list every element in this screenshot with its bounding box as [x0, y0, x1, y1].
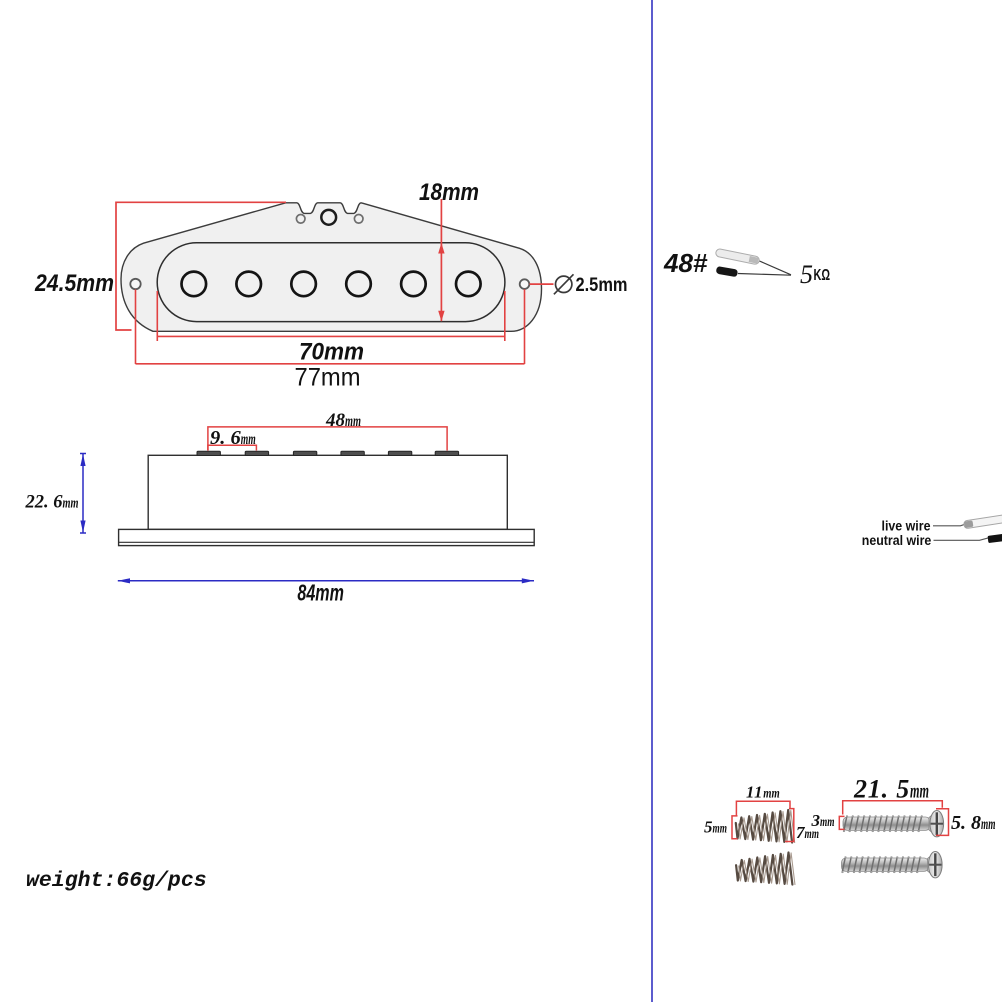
svg-text:84mm: 84mm [297, 580, 344, 606]
svg-text:neutral wire: neutral wire [862, 533, 932, 548]
screw 1 (mounting screw, top) [843, 811, 944, 837]
extension line left hole to 77mm [135, 290, 137, 365]
dimension bracket 7mm (spring big end) [785, 809, 794, 842]
diameter symbol [554, 274, 574, 294]
svg-text:3mm: 3mm [811, 811, 835, 830]
top small hole left [296, 215, 305, 224]
pickup top-view outer cover outline [121, 203, 542, 331]
dimension line 77mm [136, 363, 525, 365]
svg-text:2.5mm: 2.5mm [576, 275, 628, 296]
svg-text:21. 5mm: 21. 5mm [853, 775, 929, 804]
screw 2 (mounting screw, bottom) [842, 852, 943, 878]
pole tab 3 (side view) [293, 451, 316, 455]
pole tab 1 (side view) [197, 451, 220, 455]
svg-text:70mm: 70mm [299, 339, 364, 366]
dimension bracket 24.5mm [116, 202, 286, 330]
dimension bracket 5mm (spring small end) [732, 816, 738, 839]
pole piece 5 [401, 272, 426, 297]
pole piece 1 [182, 272, 207, 297]
svg-text:5mm: 5mm [704, 818, 727, 837]
right mounting hole [520, 279, 530, 289]
pole piece 2 [236, 272, 261, 297]
extension line stadium left to 70mm [156, 291, 158, 341]
svg-text:18mm: 18mm [419, 179, 479, 206]
pole piece 3 [291, 272, 316, 297]
leader line hole diameter [530, 283, 554, 285]
svg-text:77mm: 77mm [295, 364, 361, 392]
dimension bracket 48mm [208, 427, 447, 451]
svg-text:24.5mm: 24.5mm [34, 270, 114, 297]
pickup top-view inner flange (stadium) [157, 243, 505, 322]
dimension arrow 22.6mm [80, 454, 86, 534]
pole piece 4 [346, 272, 371, 297]
dimension bracket 11mm (spring length) [736, 801, 790, 815]
pole piece 6 [456, 272, 481, 297]
side view body [148, 455, 507, 529]
pointer line from white wire [760, 261, 792, 275]
side view base plate [119, 529, 535, 545]
dimension bracket 3mm (screw tip) [839, 816, 844, 829]
svg-text:5. 8mm: 5. 8mm [951, 812, 996, 834]
base plate inner line [119, 541, 535, 543]
leader line neutral wire [934, 537, 991, 540]
dimension line 18mm (vertical) [440, 199, 442, 321]
spring 2 (conical, bottom) [736, 853, 792, 885]
neutral wire (black) [988, 534, 1002, 543]
svg-text:48#: 48# [663, 248, 708, 278]
top center hole [321, 210, 336, 225]
live wire (white) [963, 514, 1002, 529]
pole tab 6 (side view) [435, 451, 458, 455]
vertical section divider line [651, 0, 653, 1002]
svg-text:9. 6mm: 9. 6mm [210, 427, 256, 449]
svg-text:11mm: 11mm [746, 783, 780, 802]
enameled wire white sample [715, 248, 760, 265]
dimension bracket 9.6mm [208, 445, 257, 450]
pole tab 5 (side view) [388, 451, 411, 455]
left mounting hole [130, 279, 140, 289]
pole tab 2 (side view) [245, 451, 268, 455]
extension line right hole to 77mm [524, 289, 526, 364]
top small hole right [354, 215, 363, 224]
pole tab 4 (side view) [341, 451, 364, 455]
svg-text:live wire: live wire [882, 519, 931, 534]
dimension bracket 21.5mm (screw length) [843, 801, 943, 815]
svg-text:48mm: 48mm [325, 410, 361, 431]
svg-text:weight:66g/pcs: weight:66g/pcs [26, 869, 207, 893]
svg-text:5: 5 [800, 260, 813, 289]
svg-text:KΩ: KΩ [814, 267, 831, 284]
enameled wire black sample [716, 266, 738, 277]
svg-text:22. 6mm: 22. 6mm [25, 493, 79, 513]
extension line stadium right to 70mm [504, 291, 506, 341]
leader line live wire [933, 523, 968, 526]
dimension bracket 5.8mm (head dia) [936, 809, 949, 836]
pointer line from black wire [738, 274, 791, 276]
spring 1 (conical, top) [736, 810, 792, 843]
dimension arrow 84mm [118, 578, 534, 583]
dimension line 70mm [157, 335, 505, 337]
